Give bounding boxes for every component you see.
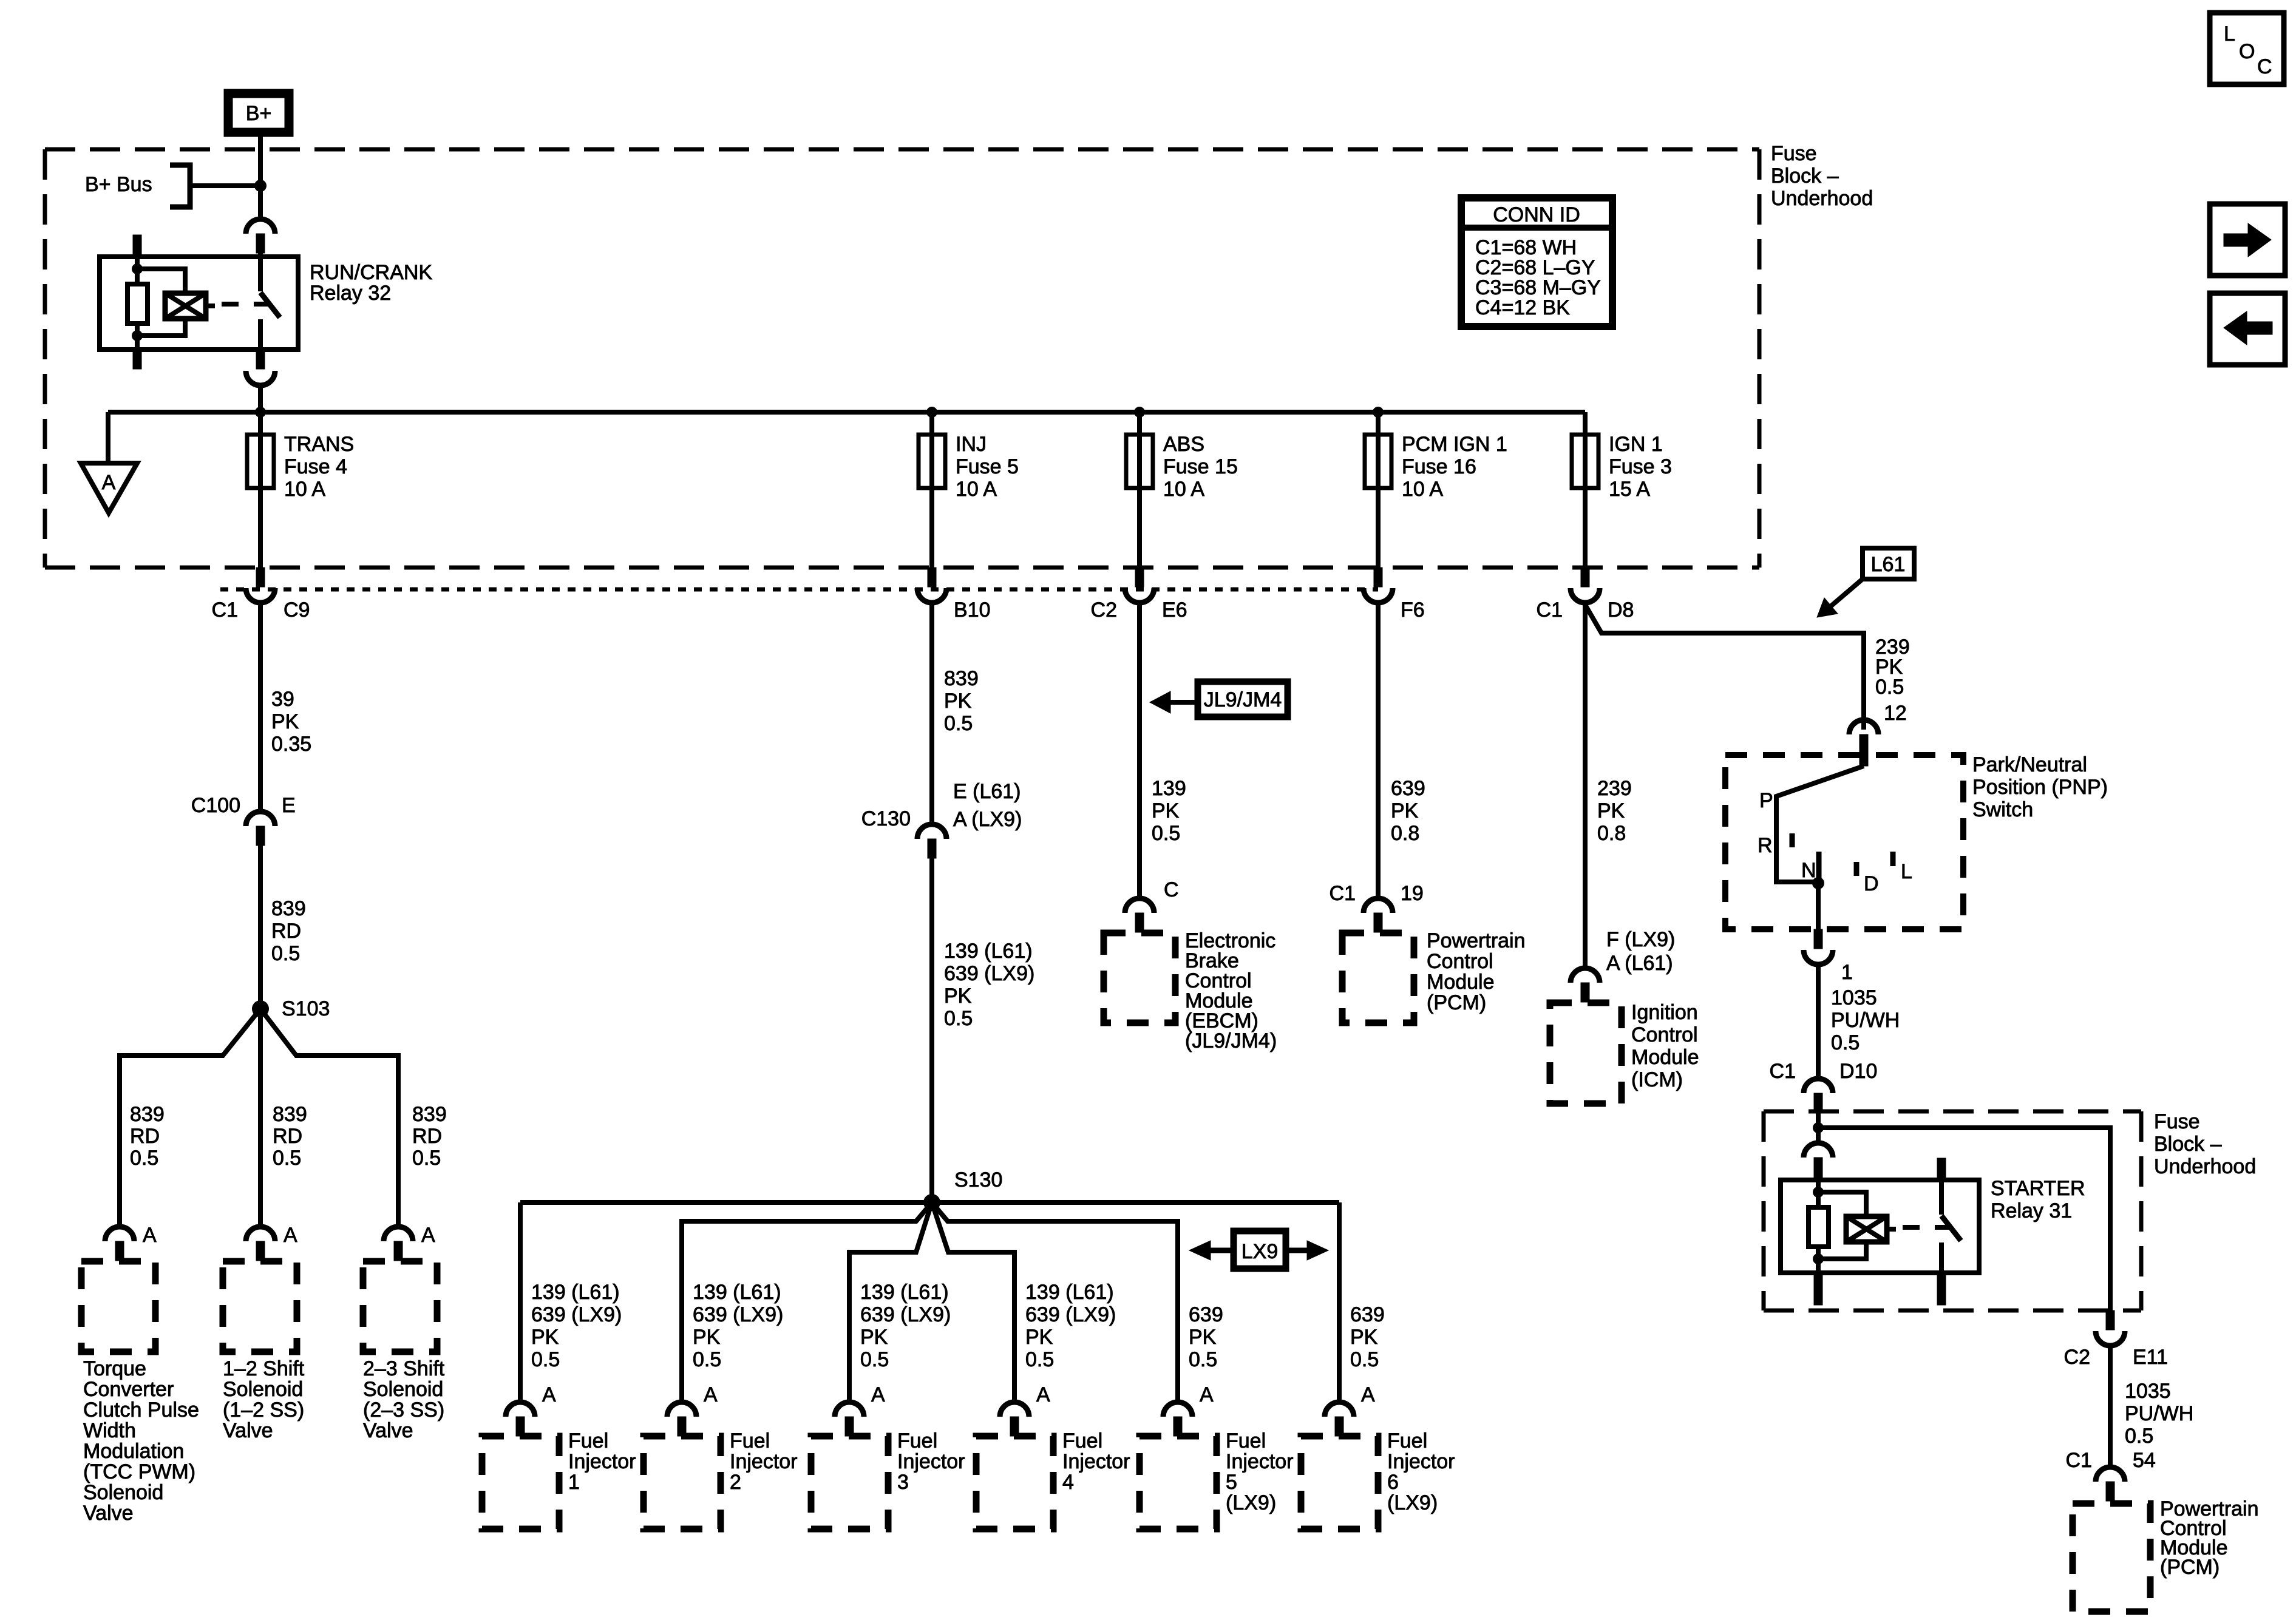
svg-text:Valve: Valve xyxy=(363,1419,413,1442)
svg-text:JL9/JM4: JL9/JM4 xyxy=(1204,688,1282,711)
connector C130 pin E/A xyxy=(917,824,946,839)
svg-text:Torque: Torque xyxy=(83,1357,146,1380)
svg-text:R: R xyxy=(1758,834,1773,857)
connector PNP pin 1 out xyxy=(1814,929,1822,949)
ground A xyxy=(81,463,137,513)
svg-text:C1: C1 xyxy=(212,598,238,622)
svg-text:6: 6 xyxy=(1387,1471,1399,1494)
connector solenoid 1 pin A xyxy=(105,1227,134,1241)
starter relay coil pin bottom ext xyxy=(1814,1273,1822,1305)
svg-text:A: A xyxy=(1361,1383,1375,1406)
svg-text:Fuel: Fuel xyxy=(1387,1429,1427,1453)
STARTER Relay 31 box xyxy=(1781,1180,1979,1273)
svg-text:Fuel: Fuel xyxy=(1226,1429,1266,1453)
svg-text:Park/Neutral: Park/Neutral xyxy=(1972,753,2087,776)
RUN/CRANK Relay 32 resistor xyxy=(127,284,148,324)
svg-text:10 A: 10 A xyxy=(1402,478,1443,501)
wire 839 RD 0.5 trunk xyxy=(258,846,263,1009)
svg-text:0.5: 0.5 xyxy=(1831,1031,1860,1054)
wire 1035 PU/WH 0.5 to PCM xyxy=(2108,1348,2113,1467)
connector PCM C1 pin 54 xyxy=(2096,1467,2125,1482)
relay 32 switch output pin xyxy=(256,350,265,369)
svg-text:A: A xyxy=(143,1224,157,1247)
svg-text:PU/WH: PU/WH xyxy=(1831,1009,1900,1032)
connector C2/E11 xyxy=(2106,1310,2114,1330)
svg-text:Fuse 16: Fuse 16 xyxy=(1402,455,1476,478)
PCM box bottom right xyxy=(2073,1503,2150,1612)
svg-text:S130: S130 xyxy=(954,1168,1002,1192)
svg-text:RD: RD xyxy=(273,1125,302,1148)
svg-text:0.5: 0.5 xyxy=(860,1348,889,1371)
RUN/CRANK Relay 32 linkage xyxy=(222,302,271,307)
svg-text:N: N xyxy=(1801,859,1816,882)
svg-text:Solenoid: Solenoid xyxy=(223,1378,303,1401)
TCC PWM solenoid valve box xyxy=(81,1261,155,1352)
svg-text:D8: D8 xyxy=(1608,598,1634,622)
1-2 shift solenoid valve box xyxy=(223,1261,297,1352)
svg-text:C100: C100 xyxy=(191,794,240,817)
RUN/CRANK Relay 32 coil pin bottom xyxy=(133,350,141,369)
svg-text:1035: 1035 xyxy=(1831,986,1877,1009)
STARTER Relay 31 coil branch xyxy=(1818,1192,1866,1216)
fuse ABS Fuse 15 xyxy=(1126,435,1153,488)
connector fuel injector 2 pin A xyxy=(667,1402,696,1417)
svg-text:Clutch Pulse: Clutch Pulse xyxy=(83,1398,199,1422)
svg-text:E (L61): E (L61) xyxy=(953,780,1021,803)
fuel injector 1 box xyxy=(482,1436,559,1529)
STARTER Relay 31 coil pin bottom xyxy=(1814,1273,1822,1292)
svg-text:Block –: Block – xyxy=(1771,164,1839,188)
connector F6 (PCM IGN out) xyxy=(1374,568,1382,587)
svg-text:(JL9/JM4): (JL9/JM4) xyxy=(1185,1029,1277,1053)
svg-text:PK: PK xyxy=(271,710,299,733)
svg-text:Ignition: Ignition xyxy=(1631,1001,1698,1024)
connector fuel injector 6 pin A xyxy=(1325,1402,1354,1417)
connector row dotted line xyxy=(220,588,1378,592)
svg-text:639 (LX9): 639 (LX9) xyxy=(944,962,1034,985)
svg-text:0.35: 0.35 xyxy=(271,733,311,756)
fuel injector 6 box xyxy=(1301,1436,1378,1529)
svg-text:Valve: Valve xyxy=(223,1419,273,1442)
svg-text:0.5: 0.5 xyxy=(2125,1425,2153,1448)
node bus-INJ junction xyxy=(926,407,937,418)
svg-text:C: C xyxy=(1164,878,1179,901)
connector starter relay coil in xyxy=(1804,1143,1833,1158)
STARTER Relay 31 switch xyxy=(1939,1180,1944,1215)
svg-text:RD: RD xyxy=(412,1125,442,1148)
B+ power feed box xyxy=(228,93,289,132)
wire 139 PK 0.5 EBCM xyxy=(1137,603,1142,898)
wire S103 left branch xyxy=(120,1009,260,1227)
svg-text:Injector: Injector xyxy=(897,1450,965,1473)
svg-text:Underhood: Underhood xyxy=(2154,1155,2256,1178)
PCM box xyxy=(1342,933,1414,1023)
connector fuel injector 5 pin A xyxy=(1163,1402,1192,1417)
fuel injector 2 box xyxy=(644,1436,721,1529)
connector C1/C9 (TRANS out) xyxy=(256,568,265,587)
svg-text:(LX9): (LX9) xyxy=(1226,1491,1276,1514)
svg-text:F (LX9): F (LX9) xyxy=(1606,928,1675,951)
RUN/CRANK Relay 32 coil wire xyxy=(135,257,140,284)
svg-text:139 (L61): 139 (L61) xyxy=(693,1281,781,1304)
svg-text:0.5: 0.5 xyxy=(693,1348,721,1371)
svg-text:639: 639 xyxy=(1189,1303,1223,1326)
svg-text:C1: C1 xyxy=(1770,1060,1796,1083)
STARTER Relay 31 linkage xyxy=(1903,1225,1952,1230)
2-3 shift solenoid valve box xyxy=(363,1261,437,1352)
svg-text:Injector: Injector xyxy=(1226,1450,1294,1473)
svg-text:0.5: 0.5 xyxy=(1025,1348,1054,1371)
svg-text:10 A: 10 A xyxy=(284,478,325,501)
svg-text:IGN 1: IGN 1 xyxy=(1609,433,1663,456)
ICM box xyxy=(1550,1003,1622,1103)
svg-text:239: 239 xyxy=(1597,777,1632,800)
svg-text:B+ Bus: B+ Bus xyxy=(85,173,152,196)
svg-text:A (L61): A (L61) xyxy=(1606,952,1673,975)
svg-text:PK: PK xyxy=(1189,1326,1217,1349)
wire bus to PCM IGN 1 Fuse 16 xyxy=(1376,412,1381,568)
svg-text:639 (LX9): 639 (LX9) xyxy=(860,1303,951,1326)
svg-text:Fuse: Fuse xyxy=(1771,142,1817,165)
svg-text:0.5: 0.5 xyxy=(1350,1348,1379,1371)
svg-text:C1: C1 xyxy=(2066,1449,2092,1472)
svg-text:15 A: 15 A xyxy=(1609,478,1650,501)
svg-text:A: A xyxy=(871,1383,885,1406)
svg-text:Injector: Injector xyxy=(730,1450,798,1473)
RUN/CRANK Relay 32 coil pin top xyxy=(133,235,141,257)
node bus-ABS junction xyxy=(1134,407,1145,418)
svg-text:639 (LX9): 639 (LX9) xyxy=(531,1303,622,1326)
fuse block underhood dashed border xyxy=(45,147,1759,152)
svg-text:A: A xyxy=(1200,1383,1214,1406)
svg-text:Converter: Converter xyxy=(83,1378,174,1401)
svg-text:E: E xyxy=(282,794,296,817)
wire S103 middle branch xyxy=(258,1009,263,1227)
node bus/relay junction xyxy=(255,407,266,418)
connector C1/D8 (IGN 1 out) xyxy=(1581,568,1589,587)
svg-text:B+: B+ xyxy=(246,102,272,125)
svg-text:ABS: ABS xyxy=(1163,433,1204,456)
svg-text:3: 3 xyxy=(897,1471,909,1494)
STARTER Relay 31 coil pin top xyxy=(1814,1158,1822,1180)
svg-text:0.8: 0.8 xyxy=(1597,822,1626,845)
wire S103 right branch xyxy=(260,1009,398,1227)
wire S130 top rail (inj 1 / inj 6) xyxy=(520,1200,1339,1205)
svg-text:(PCM): (PCM) xyxy=(1427,991,1486,1014)
svg-text:0.8: 0.8 xyxy=(1391,822,1419,845)
fuse INJ Fuse 5 xyxy=(919,435,945,488)
starter relay switch pin top xyxy=(1937,1158,1946,1180)
svg-text:A: A xyxy=(421,1224,435,1247)
PNP wiper arm xyxy=(1776,766,1864,882)
wire 239 PK 0.5 branch to PNP xyxy=(1586,606,1864,730)
svg-text:PK: PK xyxy=(1391,799,1419,822)
svg-text:Switch: Switch xyxy=(1972,798,2033,821)
svg-text:B10: B10 xyxy=(954,598,991,622)
svg-text:639 (LX9): 639 (LX9) xyxy=(693,1303,783,1326)
right arrow icon xyxy=(2210,204,2285,276)
STARTER Relay 31 coil xyxy=(1846,1216,1887,1242)
node starter feed junction xyxy=(1813,1122,1824,1133)
svg-text:Solenoid: Solenoid xyxy=(83,1481,163,1504)
left arrow icon xyxy=(2210,293,2285,365)
svg-text:0.5: 0.5 xyxy=(130,1147,158,1170)
svg-text:12: 12 xyxy=(1884,702,1907,725)
svg-text:639 (LX9): 639 (LX9) xyxy=(1025,1303,1116,1326)
svg-text:2: 2 xyxy=(730,1471,741,1494)
connector fuel injector 3 pin A xyxy=(835,1402,864,1417)
svg-text:839: 839 xyxy=(273,1103,307,1126)
PNP L contact xyxy=(1890,852,1896,866)
svg-text:A: A xyxy=(284,1224,297,1247)
svg-text:L: L xyxy=(2224,22,2235,46)
svg-text:PK: PK xyxy=(531,1326,559,1349)
node PNP N junction xyxy=(1812,877,1824,889)
PNP N contact xyxy=(1816,852,1822,883)
svg-text:1035: 1035 xyxy=(2125,1380,2171,1403)
svg-text:139 (L61): 139 (L61) xyxy=(944,940,1033,963)
connector fuel injector 4 pin A xyxy=(1000,1402,1029,1417)
svg-text:PK: PK xyxy=(860,1326,888,1349)
svg-text:PU/WH: PU/WH xyxy=(2125,1402,2193,1425)
svg-text:0.5: 0.5 xyxy=(273,1147,301,1170)
svg-text:Fuel: Fuel xyxy=(897,1429,937,1453)
svg-text:Fuse 15: Fuse 15 xyxy=(1163,455,1238,478)
connector PNP pin 12 xyxy=(1849,720,1878,734)
svg-text:39: 39 xyxy=(271,688,294,711)
wire 239 PK 0.8 ICM xyxy=(1583,603,1588,968)
svg-text:Relay 32: Relay 32 xyxy=(310,282,391,305)
svg-text:S103: S103 xyxy=(282,997,330,1020)
wire 39 PK 0.35 xyxy=(258,603,263,812)
svg-text:C4=12 BK: C4=12 BK xyxy=(1475,296,1570,319)
svg-text:(TCC PWM): (TCC PWM) xyxy=(83,1460,195,1483)
svg-text:LX9: LX9 xyxy=(1241,1240,1279,1263)
svg-text:Control: Control xyxy=(1631,1023,1698,1046)
svg-text:0.5: 0.5 xyxy=(944,1007,973,1030)
svg-text:C1: C1 xyxy=(1537,598,1563,622)
wire relay out to bus xyxy=(258,385,263,435)
svg-text:1: 1 xyxy=(568,1471,580,1494)
svg-text:839: 839 xyxy=(412,1103,447,1126)
connector C2/E6 (ABS out) xyxy=(1135,568,1144,587)
svg-text:(ICM): (ICM) xyxy=(1631,1068,1683,1091)
wire fuse supply bus xyxy=(108,410,1585,415)
svg-text:0.5: 0.5 xyxy=(944,712,973,735)
svg-text:Fuse 3: Fuse 3 xyxy=(1609,455,1672,478)
svg-text:0.5: 0.5 xyxy=(271,942,300,965)
CONN ID table xyxy=(1461,198,1612,327)
svg-text:Fuse 4: Fuse 4 xyxy=(284,455,347,478)
svg-text:F6: F6 xyxy=(1401,598,1425,622)
svg-text:Relay 31: Relay 31 xyxy=(1991,1199,2072,1222)
svg-text:E6: E6 xyxy=(1162,598,1187,622)
svg-text:(2–3 SS): (2–3 SS) xyxy=(363,1398,444,1422)
svg-text:Module: Module xyxy=(1427,971,1495,994)
svg-text:(1–2 SS): (1–2 SS) xyxy=(223,1398,304,1422)
svg-text:639: 639 xyxy=(1391,777,1425,800)
svg-text:0.5: 0.5 xyxy=(1189,1348,1217,1371)
PNP switch box xyxy=(1725,755,1963,929)
PNP D contact xyxy=(1854,862,1860,876)
svg-text:139: 139 xyxy=(1152,777,1186,800)
STARTER Relay 31 resistor xyxy=(1809,1207,1829,1247)
LX9 option marker xyxy=(1234,1231,1286,1269)
wire bus to INJ Fuse 5 xyxy=(929,412,934,568)
starter relay switch pin bottom xyxy=(1937,1273,1946,1305)
svg-text:Injector: Injector xyxy=(1387,1450,1455,1473)
svg-text:C: C xyxy=(2257,55,2272,78)
fuse IGN 1 Fuse 3 xyxy=(1572,435,1598,488)
svg-text:C130: C130 xyxy=(861,807,911,830)
PNP R contact xyxy=(1790,833,1795,847)
svg-text:PK: PK xyxy=(1025,1326,1053,1349)
connector PCM C1 pin 19 xyxy=(1364,898,1393,913)
svg-text:0.5: 0.5 xyxy=(531,1348,560,1371)
svg-text:Module: Module xyxy=(1631,1046,1699,1069)
wire to E11 xyxy=(1818,1128,2110,1310)
svg-text:RD: RD xyxy=(130,1125,160,1148)
svg-text:PK: PK xyxy=(944,985,972,1008)
svg-text:639: 639 xyxy=(1350,1303,1385,1326)
svg-text:O: O xyxy=(2239,40,2255,63)
connector EBCM pin C xyxy=(1125,898,1154,913)
wire 639 PK 0.8 PCM xyxy=(1376,603,1381,898)
svg-text:Fuse: Fuse xyxy=(2154,1110,2200,1133)
svg-text:A: A xyxy=(102,471,116,494)
connector ICM pin F/A xyxy=(1571,968,1600,983)
svg-text:139 (L61): 139 (L61) xyxy=(860,1281,949,1304)
LOC icon xyxy=(2210,13,2284,84)
svg-text:CONN ID: CONN ID xyxy=(1493,203,1580,226)
wire bus to IGN 1 Fuse 3 xyxy=(1583,412,1588,568)
svg-text:(LX9): (LX9) xyxy=(1387,1491,1438,1514)
connector B10 (INJ out) xyxy=(928,568,936,587)
JL9/JM4 flag xyxy=(1198,682,1288,717)
svg-text:P: P xyxy=(1759,789,1773,812)
node S103 xyxy=(252,1000,269,1017)
node S130 xyxy=(923,1194,940,1211)
svg-text:PK: PK xyxy=(1350,1326,1378,1349)
fuse PCM IGN 1 Fuse 16 xyxy=(1365,435,1391,488)
wire bus to ABS Fuse 15 xyxy=(1137,412,1142,568)
svg-text:PK: PK xyxy=(944,690,972,713)
wire N out xyxy=(1816,883,1821,929)
wire B+ down xyxy=(258,137,263,219)
svg-text:A: A xyxy=(1036,1383,1050,1406)
fuel injector 5 box xyxy=(1140,1436,1217,1529)
svg-text:(PCM): (PCM) xyxy=(2160,1556,2220,1579)
connector C1 pin D10 xyxy=(1804,1079,1833,1093)
svg-text:Injector: Injector xyxy=(1062,1450,1130,1473)
svg-text:5: 5 xyxy=(1226,1471,1237,1494)
svg-text:54: 54 xyxy=(2133,1449,2156,1472)
connector relay 32 pin 86 (B+ in) xyxy=(246,219,275,234)
svg-text:0.5: 0.5 xyxy=(1152,822,1180,845)
svg-text:E11: E11 xyxy=(2133,1346,2168,1369)
svg-text:STARTER: STARTER xyxy=(1991,1177,2085,1200)
EBCM box xyxy=(1104,933,1175,1023)
svg-text:10 A: 10 A xyxy=(956,478,997,501)
wire S130 third rail (inj 3 / inj 4) xyxy=(849,1202,932,1402)
connector fuel injector 1 pin A xyxy=(506,1402,535,1417)
svg-text:839: 839 xyxy=(271,897,306,920)
svg-text:RD: RD xyxy=(271,920,301,943)
node B+ bus junction xyxy=(254,180,267,192)
wire 139/639 PK 0.5 trunk xyxy=(929,858,934,1202)
wire D10 into block xyxy=(1816,1113,1821,1143)
fuse TRANS Fuse 4 xyxy=(247,435,274,488)
svg-text:Injector: Injector xyxy=(568,1450,636,1473)
wire S130 second rail (inj 2 / inj 5) xyxy=(682,1202,932,1402)
svg-text:Control: Control xyxy=(1427,950,1493,973)
svg-text:2–3 Shift: 2–3 Shift xyxy=(363,1357,445,1380)
svg-text:C9: C9 xyxy=(284,598,310,622)
svg-text:1–2 Shift: 1–2 Shift xyxy=(223,1357,305,1380)
svg-text:Fuel: Fuel xyxy=(568,1429,608,1453)
svg-text:C1: C1 xyxy=(1330,882,1356,905)
svg-text:139 (L61): 139 (L61) xyxy=(531,1281,620,1304)
svg-text:Powertrain: Powertrain xyxy=(1427,929,1526,952)
connector relay 32 output xyxy=(246,371,275,385)
svg-text:A: A xyxy=(704,1383,718,1406)
svg-text:Underhood: Underhood xyxy=(1771,187,1873,210)
svg-text:C2: C2 xyxy=(1091,598,1117,622)
wire 839 PK 0.5 xyxy=(929,603,934,824)
svg-text:19: 19 xyxy=(1401,882,1424,905)
svg-text:0.5: 0.5 xyxy=(1875,676,1904,699)
B+ Bus tap xyxy=(170,165,190,207)
svg-text:RUN/CRANK: RUN/CRANK xyxy=(310,261,432,284)
svg-text:C2: C2 xyxy=(2064,1346,2090,1369)
RUN/CRANK Relay 32 box xyxy=(100,257,298,350)
svg-text:PK: PK xyxy=(1152,799,1180,822)
svg-text:D: D xyxy=(1864,872,1879,895)
STARTER Relay 31 coil wire xyxy=(1816,1180,1821,1207)
svg-text:10 A: 10 A xyxy=(1163,478,1204,501)
svg-text:Fuel: Fuel xyxy=(1062,1429,1102,1453)
fuse block underhood 2 dashed border xyxy=(1764,1110,2141,1114)
L61 flag xyxy=(1863,548,1914,579)
RUN/CRANK Relay 32 coil branch xyxy=(137,269,185,293)
svg-text:0.5: 0.5 xyxy=(412,1147,441,1170)
svg-text:Position (PNP): Position (PNP) xyxy=(1972,776,2108,799)
connector solenoid 2 pin A xyxy=(246,1227,275,1241)
svg-text:839: 839 xyxy=(130,1103,165,1126)
fuel injector 4 box xyxy=(976,1436,1053,1529)
RUN/CRANK Relay 32 switch xyxy=(258,257,263,291)
wire bus to TRANS Fuse 4 xyxy=(258,412,263,568)
connector C100 pin E xyxy=(246,812,275,826)
svg-text:4: 4 xyxy=(1062,1471,1074,1494)
svg-text:Fuse 5: Fuse 5 xyxy=(956,455,1019,478)
svg-text:L: L xyxy=(1901,860,1912,883)
connector solenoid 3 pin A xyxy=(384,1227,413,1241)
svg-text:PK: PK xyxy=(693,1326,721,1349)
svg-text:TRANS: TRANS xyxy=(284,433,354,456)
svg-text:Width: Width xyxy=(83,1419,136,1442)
svg-text:PK: PK xyxy=(1597,799,1625,822)
svg-text:INJ: INJ xyxy=(956,433,987,456)
wire 1035 PU/WH 0.5 xyxy=(1816,964,1821,1079)
svg-text:139 (L61): 139 (L61) xyxy=(1025,1281,1114,1304)
svg-text:D10: D10 xyxy=(1839,1060,1877,1083)
svg-text:Modulation: Modulation xyxy=(83,1440,184,1463)
svg-text:Solenoid: Solenoid xyxy=(363,1378,443,1401)
svg-text:L61: L61 xyxy=(1871,553,1906,576)
RUN/CRANK Relay 32 coil xyxy=(165,293,206,319)
svg-text:Fuel: Fuel xyxy=(730,1429,770,1453)
